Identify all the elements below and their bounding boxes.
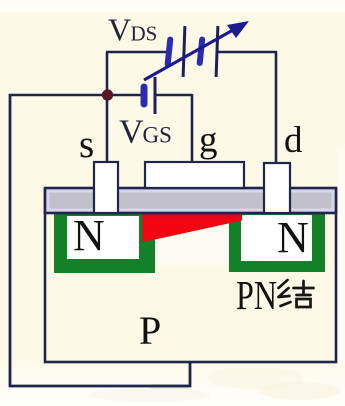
gate metal bar <box>45 188 336 213</box>
depletion region (red wedge) <box>142 213 242 242</box>
wire source up <box>106 52 109 162</box>
N region left (green well) <box>54 213 155 273</box>
svg-text:d: d <box>284 120 303 161</box>
wire drain down <box>275 51 278 163</box>
source contact <box>94 162 118 213</box>
wire up to substrate <box>189 361 192 387</box>
svg-text:N: N <box>73 211 105 260</box>
N region left contact area <box>67 216 139 259</box>
N region right (green well) <box>229 213 325 272</box>
N region right contact area <box>241 215 312 261</box>
watermark blobs <box>207 367 303 389</box>
wire VGS battery to gate corner <box>155 94 192 97</box>
svg-text:P: P <box>139 308 161 353</box>
wire top to VDS battery <box>106 51 167 54</box>
drain contact <box>264 163 290 213</box>
wire VDS battery to drain corner <box>218 51 277 54</box>
battery VDS plate 3 (thick) <box>200 40 202 63</box>
wire bottom <box>9 385 191 388</box>
battery VGS plate long <box>154 77 157 114</box>
variable source arrow <box>144 30 233 80</box>
svg-text:V: V <box>108 12 131 48</box>
svg-text:DS: DS <box>131 22 158 46</box>
channel region <box>155 213 229 265</box>
svg-text:GS: GS <box>143 123 172 148</box>
battery VDS plate 4 (long) <box>216 26 218 77</box>
label PN junction (jie hanzi, drawn) <box>279 280 314 307</box>
wire gate down <box>191 94 194 162</box>
battery VGS plate short <box>141 87 148 104</box>
node junction dot <box>102 90 112 100</box>
gate contact <box>145 162 244 188</box>
wire left rail down <box>9 94 12 387</box>
P substrate box <box>45 189 336 362</box>
svg-text:V: V <box>119 114 144 151</box>
battery VDS plate 2 (long) <box>183 26 185 77</box>
wire node to left rail <box>9 94 107 97</box>
svg-text:s: s <box>79 123 94 166</box>
svg-text:g: g <box>199 120 218 161</box>
svg-text:PN: PN <box>236 272 277 318</box>
battery VDS plate 1 (thick) <box>168 40 171 64</box>
svg-text:N: N <box>277 213 309 262</box>
wire node to VGS battery <box>107 94 141 97</box>
